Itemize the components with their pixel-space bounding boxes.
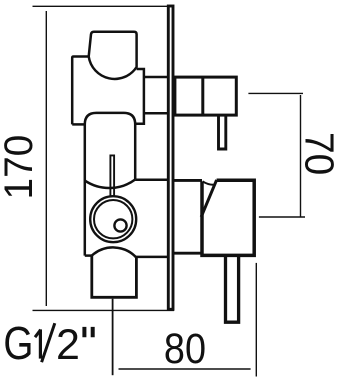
- front view: dial outer ring: [90, 196, 136, 242]
- front view: dial small knob circle: [114, 219, 126, 231]
- label G1/2" double-prime mark: [84, 327, 92, 337]
- side view: handle stem: [219, 116, 226, 149]
- svg-text:80: 80: [164, 324, 206, 373]
- front view: shoulder line capsule to wall: [135, 179, 167, 182]
- front view: plate bottom edge right: [136, 256, 167, 259]
- front view: top diverter knob: [89, 32, 137, 79]
- side view: valve body outline: [202, 180, 254, 255]
- label G1/2" digit 1 drawn: [39, 329, 42, 358]
- dimension extension line top (170 upper reference): [33, 5, 168, 7]
- centre extension line below outlet: [112, 299, 114, 376]
- wall mounting plate double line: [168, 6, 173, 309]
- side view: handle body rectangle: [175, 77, 236, 115]
- front view: outlet dome arc: [92, 247, 136, 257]
- side view: lever back arc: [203, 181, 215, 184]
- front view: temperature rod: [110, 155, 114, 197]
- front view: body band bottom-left step: [72, 123, 85, 126]
- label G1/2" slash: [42, 323, 55, 362]
- side view: lever slant line: [201, 180, 216, 217]
- svg-text:170: 170: [0, 135, 41, 200]
- svg-text:70: 70: [296, 132, 340, 175]
- dimension extension line bottom (G1/2 reference): [33, 309, 175, 311]
- svg-text:2: 2: [56, 321, 80, 369]
- side view: handle divider line: [201, 77, 204, 115]
- front view: connection protrusion to wall (bottom line): [144, 112, 167, 115]
- dimension line 70: [300, 95, 302, 217]
- front view: plate bottom edge left: [85, 254, 92, 257]
- side view: attachment top line: [174, 179, 202, 182]
- front view: lower capsule housing: [85, 113, 135, 256]
- front view: body band right step from knob: [135, 69, 144, 124]
- dimension line 80: [119, 368, 251, 370]
- front view: outlet pipe: [92, 256, 137, 298]
- extension line bottom (70 lower reference): [259, 216, 305, 218]
- front view: body band top-left edge: [72, 57, 89, 125]
- front view: capsule bottom arc: [85, 180, 135, 189]
- extension line right (80 right reference): [255, 263, 257, 377]
- front view: connection protrusion to wall (top line): [144, 76, 167, 79]
- dimension line 170: [45, 11, 47, 306]
- extension line top (70 upper reference): [248, 92, 303, 94]
- side view: outlet pipe: [226, 256, 239, 322]
- front view: dial inner ring: [94, 200, 132, 238]
- side view: attachment bottom line: [174, 252, 202, 255]
- svg-text:G: G: [3, 318, 33, 369]
